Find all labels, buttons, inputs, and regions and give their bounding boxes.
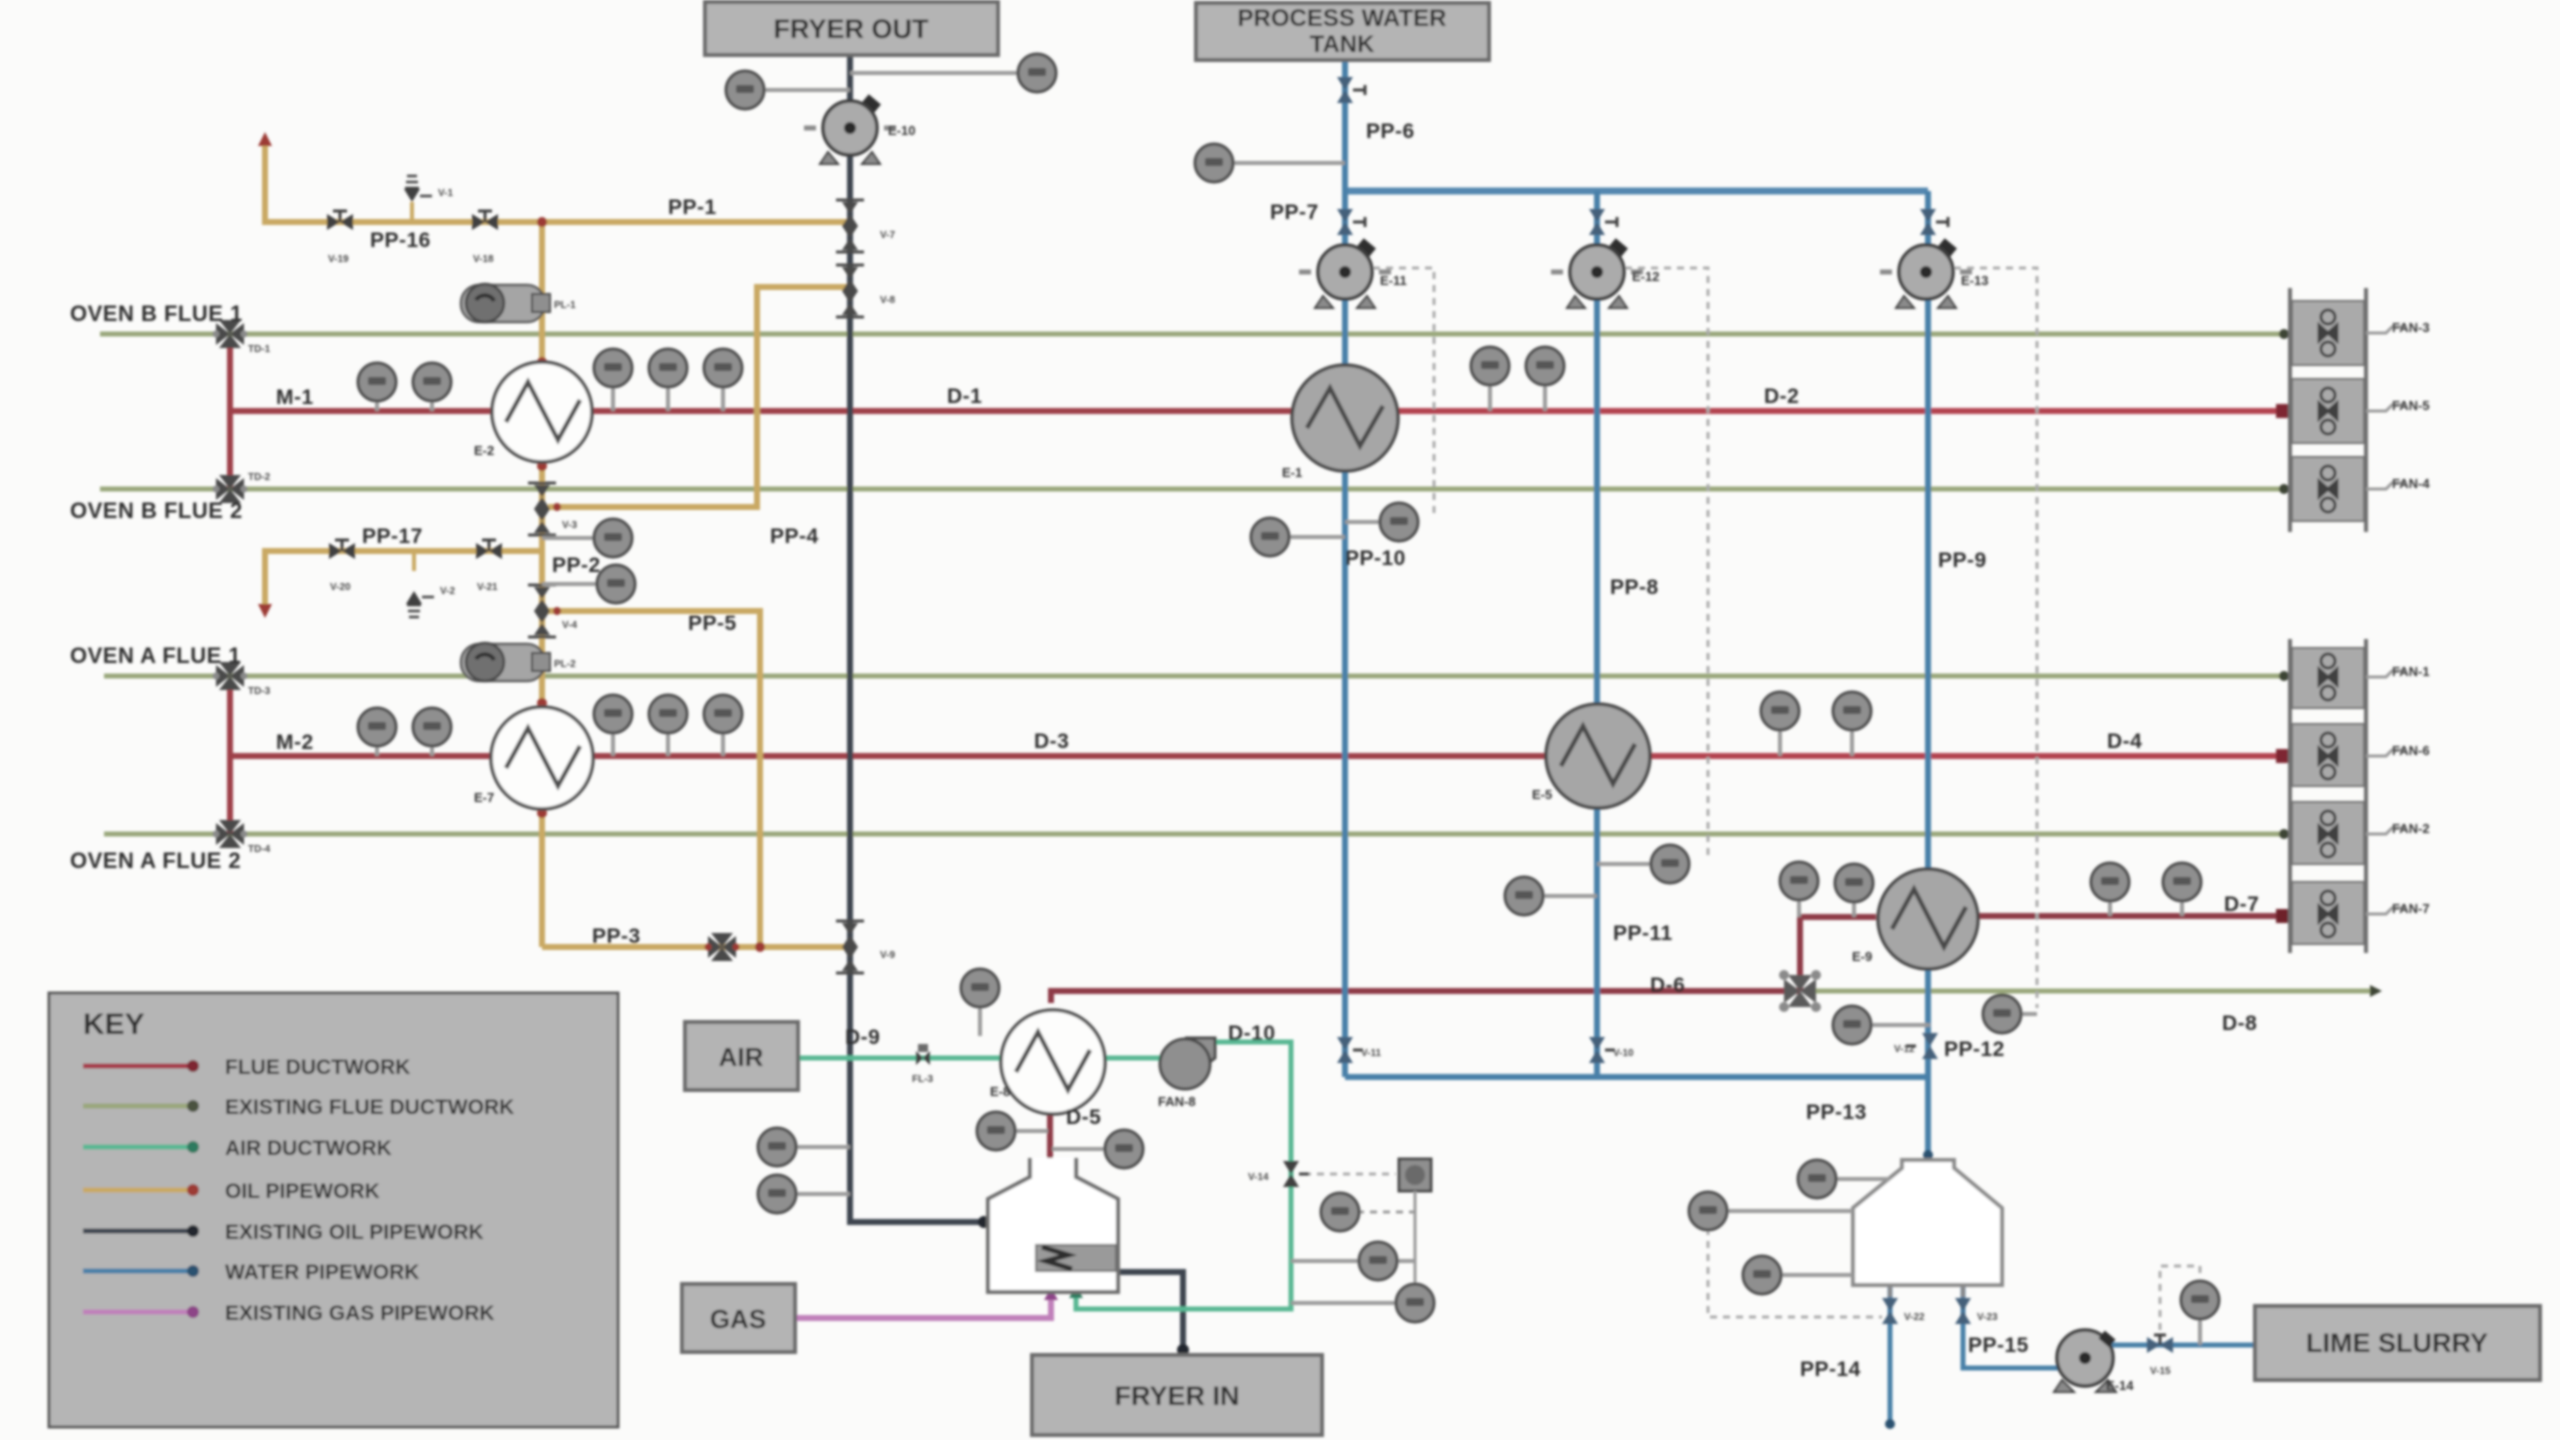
gauge PP-6: [1195, 144, 1345, 182]
gauge PP-12 left: [1833, 1006, 1930, 1044]
node label D-9: [845, 1026, 880, 1049]
gauge D-2 b: [1526, 347, 1564, 411]
svg-text:TD-2: TD-2: [248, 472, 271, 483]
node label PP-5: [688, 612, 737, 635]
svg-text:V-7: V-7: [880, 230, 895, 241]
svg-text:V-9: V-9: [880, 950, 895, 961]
svg-text:EXISTING OIL PIPEWORK: EXISTING OIL PIPEWORK: [225, 1221, 484, 1244]
svg-text:V-4: V-4: [562, 620, 577, 631]
valve V-17 oil: [472, 211, 498, 230]
double valve cluster V-9: [836, 921, 864, 973]
wire OVEN B FLUE 2 existing flue duct: [100, 484, 2289, 494]
svg-text:PP-9: PP-9: [1938, 549, 1987, 572]
svg-text:OVEN A FLUE 2: OVEN A FLUE 2: [70, 848, 241, 873]
svg-text:WATER PIPEWORK: WATER PIPEWORK: [225, 1261, 419, 1284]
node label TD-2: [248, 472, 271, 483]
node label PP-17: [362, 525, 423, 548]
node label PP-16: [370, 229, 431, 252]
fan symbol FAN-2: [2319, 811, 2337, 857]
gauge air b: [1291, 1242, 1415, 1280]
gauge tank low: [1743, 1256, 1853, 1294]
svg-text:D-7: D-7: [2224, 893, 2259, 916]
svg-text:EXISTING GAS PIPEWORK: EXISTING GAS PIPEWORK: [225, 1302, 495, 1325]
svg-text:D-3: D-3: [1034, 730, 1069, 753]
svg-text:PP-4: PP-4: [770, 525, 819, 548]
node label FAN-8: [1158, 1094, 1196, 1109]
node label D-2: [1764, 385, 1799, 408]
svg-text:PP-1: PP-1: [668, 196, 717, 219]
node label E-8: [990, 1084, 1010, 1099]
air damper FL-3: [916, 1044, 930, 1065]
node label V-7: [880, 230, 895, 241]
svg-text:AIR: AIR: [719, 1042, 764, 1072]
svg-text:E-10: E-10: [888, 123, 915, 138]
svg-text:M-1: M-1: [276, 386, 314, 409]
wire water main pipe: [1345, 188, 1928, 195]
svg-text:PP-10: PP-10: [1345, 547, 1406, 570]
box AIR: [685, 1022, 798, 1090]
legend air ductwork: [83, 1137, 392, 1160]
valve V-16 oil: [327, 211, 353, 230]
svg-text:E-7: E-7: [474, 790, 494, 805]
node label PP-4: [770, 525, 819, 548]
box FRYER OUT: [705, 2, 998, 55]
svg-text:TD-1: TD-1: [248, 344, 271, 355]
svg-text:PP-3: PP-3: [592, 925, 641, 948]
lime tank vessel: [1853, 1160, 2002, 1297]
gauge PP-11 left: [1505, 877, 1597, 915]
valve V-21 oil: [476, 540, 502, 559]
gauge air a: [1321, 1193, 1415, 1231]
fan symbol FAN-3: [2319, 310, 2337, 356]
svg-text:PP-8: PP-8: [1610, 576, 1659, 599]
wire PP-13 water pipe: [1345, 1077, 1933, 1160]
node label D-4: [2107, 730, 2142, 753]
svg-text:V-15: V-15: [2150, 1366, 2171, 1377]
pump E-10: [804, 94, 896, 164]
svg-text:FAN-3: FAN-3: [2392, 320, 2430, 335]
svg-text:TD-4: TD-4: [248, 844, 271, 855]
gauge PT fryer out left: [726, 71, 850, 109]
gauge PP-10 left: [1251, 518, 1345, 556]
heat exchanger E-9: [1878, 869, 1978, 969]
wire existing oil pipe to FRYER IN: [1116, 1272, 1189, 1356]
node label V-19: [328, 254, 349, 265]
gauge M-2 a: [358, 708, 396, 756]
wire PP-8 PP-11 water pipe: [1594, 191, 1600, 1077]
air valve V-14: [1283, 1161, 1309, 1187]
svg-text:V-23: V-23: [1977, 1312, 1998, 1323]
svg-text:PP-15: PP-15: [1968, 1334, 2029, 1357]
inline filter S PL-1: [461, 284, 550, 322]
water valve PP-6: [1337, 77, 1365, 103]
wire dashed control line tank level: [1708, 1228, 1882, 1317]
node label PP-7: [1270, 201, 1319, 224]
svg-text:FAN-7: FAN-7: [2392, 901, 2430, 916]
svg-text:E-9: E-9: [1852, 949, 1872, 964]
svg-text:OIL PIPEWORK: OIL PIPEWORK: [225, 1180, 380, 1203]
svg-text:V-14: V-14: [1248, 1172, 1269, 1183]
wire dashed control line fryer valve: [1304, 1173, 1396, 1176]
node label D-6: [1650, 974, 1685, 997]
motor valve cluster D-6 D-8: [1779, 970, 1821, 1012]
node label FAN-1: [2366, 664, 2430, 679]
node label D-10: [1228, 1022, 1276, 1045]
wire PP-14 water pipe: [1885, 1285, 1895, 1429]
water valve V-13 E-13: [1920, 209, 1948, 235]
node label V-8: [880, 295, 895, 306]
heat exchanger E-8: [1001, 1010, 1105, 1114]
fan symbol FAN-1: [2319, 654, 2337, 700]
svg-text:OVEN A FLUE 1: OVEN A FLUE 1: [70, 643, 241, 668]
gauge PP-11 right: [1597, 845, 1689, 883]
node label V-2: [440, 586, 455, 597]
svg-text:FAN-4: FAN-4: [2392, 476, 2430, 491]
svg-text:FAN-8: FAN-8: [1158, 1094, 1196, 1109]
node label PP-10: [1345, 547, 1406, 570]
node label V-10: [1613, 1048, 1634, 1059]
fryer vessel: [988, 1158, 1118, 1292]
svg-text:E-2: E-2: [474, 443, 494, 458]
wire OVEN A FLUE 2 existing flue duct: [104, 829, 2289, 839]
gauge tank level: [1689, 1192, 1853, 1230]
node label PP-9: [1938, 549, 1987, 572]
legend existing oil pipework: [83, 1221, 484, 1244]
node label V-18: [473, 254, 494, 265]
svg-text:AIR DUCTWORK: AIR DUCTWORK: [225, 1137, 392, 1160]
svg-text:D-1: D-1: [947, 385, 982, 408]
node label PL-1: [554, 300, 576, 311]
svg-text:FAN-6: FAN-6: [2392, 743, 2430, 758]
svg-text:D-4: D-4: [2107, 730, 2142, 753]
node label PP-6: [1366, 120, 1415, 143]
double valve cluster V-8: [836, 265, 864, 317]
gauge fryer PE: [758, 1175, 850, 1213]
wire D-8 existing flue duct: [1806, 985, 2382, 997]
gauge PP-12 right: [1983, 995, 2037, 1033]
wire M-2 D-3 D-4 flue duct: [230, 749, 2290, 763]
svg-text:D-2: D-2: [1764, 385, 1799, 408]
fan symbol FAN-5: [2319, 388, 2337, 434]
svg-text:E-8: E-8: [990, 1084, 1010, 1099]
svg-text:V-12: V-12: [1894, 1044, 1915, 1055]
heat exchanger E-5: [1546, 704, 1650, 808]
gauge D-7 a: [2091, 863, 2129, 916]
wire PP-4 oil pipe: [548, 287, 848, 507]
svg-text:V-19: V-19: [328, 254, 349, 265]
node label V-11: [1361, 1048, 1381, 1059]
svg-text:OVEN B FLUE 2: OVEN B FLUE 2: [70, 498, 243, 523]
instrument square air: [1399, 1159, 1431, 1295]
node label E-10: [888, 123, 915, 138]
svg-text:KEY: KEY: [83, 1008, 145, 1041]
wire D-5 flue duct: [1044, 1098, 1056, 1158]
gauge D-3 a: [594, 695, 632, 756]
svg-text:PP-14: PP-14: [1800, 1358, 1861, 1381]
fan symbol FAN-4: [2319, 466, 2337, 512]
node label PP-8: [1610, 576, 1659, 599]
svg-text:PL-1: PL-1: [554, 300, 576, 311]
box FRYER IN: [1032, 1355, 1322, 1435]
wire existing oil pipe from FRYER OUT: [850, 55, 990, 1228]
fan stack 1 housing: [2290, 288, 2366, 532]
wire D-10 air duct: [1069, 1042, 1291, 1309]
gauge PP-2 a: [542, 519, 632, 557]
node label PP-12: [1944, 1038, 2005, 1061]
wire D-9 air duct: [798, 1056, 1160, 1061]
svg-text:PP-7: PP-7: [1270, 201, 1319, 224]
water valve V-5 E-11: [1337, 209, 1365, 235]
gauge D-1 c: [704, 349, 742, 411]
node label V-9: [880, 950, 895, 961]
svg-text:FAN-2: FAN-2: [2392, 821, 2430, 836]
svg-text:V-22: V-22: [1904, 1312, 1925, 1323]
gauge D-3 b: [649, 695, 687, 756]
fan stack 2 housing: [2290, 639, 2366, 953]
node label V-15: [2150, 1366, 2171, 1377]
junction dots oil: [537, 217, 765, 952]
pump E-11: [1299, 238, 1391, 308]
node label TD-1: [248, 344, 271, 355]
svg-text:D-9: D-9: [845, 1026, 880, 1049]
node label V-1: [438, 188, 453, 199]
damper valve TD-1: [213, 320, 248, 348]
node label V-3: [562, 520, 577, 531]
node label D-3: [1034, 730, 1069, 753]
node label PP-15: [1968, 1334, 2029, 1357]
node label E-12: [1632, 269, 1659, 284]
node label PP-14: [1800, 1358, 1861, 1381]
gauge M-2 b: [413, 708, 451, 756]
double valve cluster V-3: [528, 483, 556, 535]
svg-text:E-13: E-13: [1961, 273, 1988, 288]
node label PP-1: [668, 196, 717, 219]
node label E-9: [1852, 949, 1872, 964]
svg-text:PP-5: PP-5: [688, 612, 737, 635]
wire dashed control line E-13: [1941, 268, 2037, 1008]
tank valve V-18: [1882, 1298, 1898, 1324]
node label PP-13: [1806, 1101, 1867, 1124]
wire M-1 D-1 D-2 flue duct: [230, 404, 2290, 418]
water valve V-6 E-12: [1589, 209, 1617, 235]
svg-text:E-1: E-1: [1282, 465, 1302, 480]
double valve cluster V-4: [528, 585, 556, 637]
svg-text:FAN-1: FAN-1: [2392, 664, 2430, 679]
svg-text:GAS: GAS: [710, 1304, 766, 1334]
node label TD-4: [248, 844, 271, 855]
gauge D-5 right: [1052, 1130, 1143, 1168]
svg-text:FAN-5: FAN-5: [2392, 398, 2430, 413]
svg-text:PP-2: PP-2: [552, 554, 601, 577]
svg-text:V-2: V-2: [440, 586, 455, 597]
gauge PE M-1 a: [358, 363, 396, 411]
wire PP-17 oil pipe: [258, 551, 540, 618]
box GAS: [682, 1284, 795, 1352]
svg-text:V-3: V-3: [562, 520, 577, 531]
gauge D-3 c: [704, 695, 742, 756]
svg-text:E-5: E-5: [1532, 787, 1552, 802]
wire D-6 flue duct: [1051, 917, 1876, 1003]
wire existing gas pipe: [795, 1288, 1058, 1318]
legend flue ductwork: [83, 1056, 410, 1079]
svg-text:PP-17: PP-17: [362, 525, 423, 548]
svg-text:PP-13: PP-13: [1806, 1101, 1867, 1124]
legend existing flue ductwork: [83, 1096, 514, 1119]
damper valve TD-2: [213, 475, 248, 503]
valve V-20 oil: [329, 540, 355, 559]
valve V-13 oil PP-3: [705, 933, 740, 961]
node label V-12: [1894, 1044, 1915, 1055]
svg-text:D-6: D-6: [1650, 974, 1685, 997]
gauge D-6 a: [1780, 862, 1818, 917]
gauge fryer TE: [758, 1128, 850, 1166]
node OVEN B FLUE 1: [70, 301, 243, 326]
svg-text:FLUE DUCTWORK: FLUE DUCTWORK: [225, 1056, 410, 1079]
svg-text:PP-16: PP-16: [370, 229, 431, 252]
svg-text:E-14: E-14: [2106, 1378, 2134, 1393]
wire M-2 riser flue duct: [227, 688, 233, 834]
svg-text:LIME SLURRY: LIME SLURRY: [2306, 1328, 2488, 1358]
wire PP-15 water pipe: [1963, 1285, 2253, 1368]
node label V-21: [477, 582, 498, 593]
svg-text:FRYER OUT: FRYER OUT: [774, 14, 930, 44]
gauge D-1 b: [649, 349, 687, 411]
gauge TT fryer out right: [850, 54, 1056, 92]
svg-text:PP-11: PP-11: [1613, 922, 1673, 945]
node OVEN B FLUE 2: [70, 498, 243, 523]
node label FAN-3: [2366, 320, 2430, 335]
node label V-20: [330, 582, 351, 593]
node label PL-2: [554, 659, 576, 670]
node label D-5: [1066, 1106, 1101, 1129]
wire dashed control line lime pump: [2160, 1266, 2200, 1330]
gauge D-7 b: [2163, 863, 2201, 916]
water valve V-27 PP-12: [1906, 1033, 1938, 1059]
node label E-2: [474, 443, 494, 458]
heat exchanger E-7: [491, 707, 593, 809]
node label V-22: [1904, 1312, 1925, 1323]
node label D-7: [2224, 893, 2259, 916]
node OVEN A FLUE 2: [70, 848, 241, 873]
svg-text:E-12: E-12: [1632, 269, 1659, 284]
pump E-14 lime slurry: [2054, 1330, 2116, 1392]
relief valve PP-16: [404, 176, 432, 222]
gauge tank neck: [1798, 1160, 1890, 1198]
svg-text:V-21: V-21: [477, 582, 498, 593]
box LIME SLURRY: [2255, 1306, 2540, 1380]
svg-text:FRYER IN: FRYER IN: [1114, 1381, 1239, 1411]
legend water pipework: [83, 1261, 419, 1284]
node OVEN A FLUE 1: [70, 643, 241, 668]
gauge D-4 b: [1833, 692, 1871, 756]
svg-text:PP-6: PP-6: [1366, 120, 1415, 143]
wire PP-9 PP-12 water pipe: [1925, 191, 1931, 1158]
svg-text:V-10: V-10: [1613, 1048, 1634, 1059]
node label FAN-6: [2366, 743, 2430, 758]
gauge lime pump: [2181, 1281, 2219, 1345]
wire PP-5 oil pipe: [548, 611, 760, 947]
svg-text:FL-3: FL-3: [912, 1074, 934, 1085]
node label D-1: [947, 385, 982, 408]
pump E-12: [1551, 238, 1643, 308]
gauge D-2 a: [1471, 347, 1509, 411]
svg-text:V-11: V-11: [1361, 1048, 1381, 1059]
gauge TE M-1 b: [413, 363, 451, 411]
inline filter S PL-2: [461, 643, 550, 681]
node label PP-3: [592, 925, 641, 948]
gauge D-5 left: [977, 1112, 1048, 1150]
node label D-8: [2222, 1012, 2257, 1035]
heat exchanger E-2: [492, 362, 592, 462]
node label M-1: [276, 386, 314, 409]
lime valve V-15: [2147, 1335, 2173, 1353]
node label FL-3: [912, 1074, 934, 1085]
svg-text:M-2: M-2: [276, 731, 314, 754]
gauge D-4 a: [1761, 692, 1799, 756]
fan blower FAN-8: [1160, 1038, 1215, 1089]
wire OVEN A FLUE 1 existing flue duct: [104, 671, 2289, 681]
gauge E-8 top: [961, 969, 999, 1036]
svg-text:V-18: V-18: [473, 254, 494, 265]
gauge PP-2 b: [542, 565, 635, 603]
svg-text:TANK: TANK: [1310, 31, 1376, 58]
node label V-4: [562, 620, 577, 631]
wire M-1 riser flue duct: [227, 346, 233, 487]
fan symbol FAN-6: [2319, 733, 2337, 779]
svg-text:D-10: D-10: [1228, 1022, 1276, 1045]
pump E-13: [1880, 238, 1972, 308]
water valve V-26 PP-11: [1589, 1037, 1615, 1063]
svg-text:EXISTING FLUE DUCTWORK: EXISTING FLUE DUCTWORK: [225, 1096, 514, 1119]
node label E-5: [1532, 787, 1552, 802]
gauge D-6 b: [1835, 864, 1873, 917]
wire dashed control line E-12: [1612, 268, 1708, 858]
node label FAN-2: [2366, 821, 2430, 836]
svg-text:OVEN B FLUE 1: OVEN B FLUE 1: [70, 301, 243, 326]
svg-text:V-20: V-20: [330, 582, 351, 593]
svg-text:PP-12: PP-12: [1944, 1038, 2005, 1061]
node label E-11: [1380, 273, 1407, 288]
node label E-7: [474, 790, 494, 805]
gauge D-1 a: [594, 349, 632, 411]
double valve cluster V-7: [836, 200, 864, 252]
svg-text:D-8: D-8: [2222, 1012, 2257, 1035]
legend KEY box: [49, 993, 618, 1427]
wire PP-6 PP-7 PP-10 water pipe: [1342, 60, 1348, 1077]
wire PP-16 PP-1 oil pipe: [258, 132, 848, 222]
damper valve TD-3: [213, 662, 248, 690]
svg-text:TD-3: TD-3: [248, 686, 271, 697]
svg-text:V-8: V-8: [880, 295, 895, 306]
node label FAN-7: [2366, 901, 2430, 916]
wire PP-3 oil pipe: [542, 944, 848, 950]
node label E-1: [1282, 465, 1302, 480]
node label TD-3: [248, 686, 271, 697]
svg-text:PROCESS WATER: PROCESS WATER: [1238, 5, 1447, 32]
legend existing gas pipework: [83, 1302, 495, 1325]
svg-text:V-1: V-1: [438, 188, 453, 199]
gauge PP-10 right: [1345, 503, 1418, 541]
node label FAN-4: [2366, 476, 2430, 491]
svg-text:PL-2: PL-2: [554, 659, 576, 670]
wire D-7 flue duct: [1978, 909, 2290, 923]
node label PP-11: [1613, 922, 1673, 945]
wire PP-2 oil pipe vertical: [539, 222, 545, 947]
relief valve PP-17: [406, 551, 434, 617]
node label PP-2: [552, 554, 601, 577]
node label V-14: [1248, 1172, 1269, 1183]
node label FAN-5: [2366, 398, 2430, 413]
